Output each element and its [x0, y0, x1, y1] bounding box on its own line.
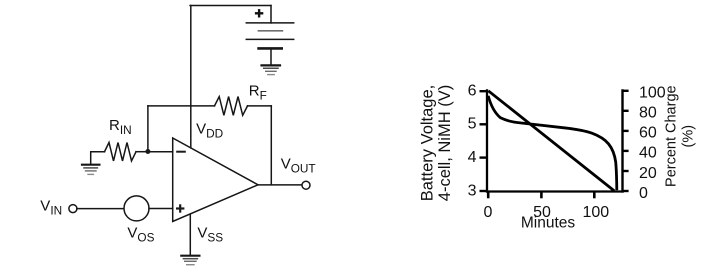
svg-text:60: 60	[639, 125, 657, 142]
axis: right y-axis (percent charge)	[621, 89, 623, 192]
op-amp U1	[173, 138, 258, 222]
source VOS (offset voltage, circle)	[124, 196, 149, 221]
svg-text:100: 100	[582, 204, 609, 221]
terminal VOUT (open circle)	[302, 181, 310, 189]
node: inverting input junction dot	[145, 149, 150, 154]
wire: top rail over to battery positive	[190, 5, 271, 7]
ground (RIN input)	[82, 165, 99, 175]
svg-text:Percent Charge: Percent Charge	[663, 85, 679, 187]
battery B1	[246, 23, 293, 49]
wire: drop from rail to battery top plate	[270, 6, 272, 23]
op-amp inverting input minus sign	[176, 151, 186, 153]
svg-text:4: 4	[468, 149, 477, 166]
wire: VOS source to op-amp plus input	[149, 208, 173, 210]
svg-text:0: 0	[484, 204, 493, 221]
ground (VSS)	[181, 256, 199, 265]
terminal VIN (open circle)	[69, 205, 77, 213]
wire: RF left lead	[148, 105, 215, 107]
battery polarity plus sign	[255, 9, 263, 17]
resistor RIN	[105, 143, 137, 161]
ticks: x-axis 0,50,100	[488, 192, 594, 199]
ground (battery)	[262, 65, 281, 74]
right y-axis title (two rotated lines)	[663, 85, 696, 187]
left y-axis title (two rotated lines)	[419, 85, 455, 202]
resistor RF	[215, 97, 248, 116]
svg-text:4-cell, NiMH (V): 4-cell, NiMH (V)	[436, 85, 454, 201]
curve: battery voltage discharge	[488, 96, 617, 190]
wire: inverting node to op-amp minus input	[148, 151, 173, 153]
wire: RIN right lead to inverting node	[136, 151, 148, 153]
op-amp non-inverting input plus sign	[176, 204, 184, 212]
svg-text:100: 100	[639, 85, 666, 102]
svg-text:Minutes: Minutes	[521, 215, 576, 232]
axis: bottom x-axis (minutes)	[486, 190, 624, 192]
curve: percent charge (straight diagonal)	[488, 91, 614, 191]
wire: VSS pin down to ground	[189, 214, 191, 255]
ticks: right y-axis 100..0	[623, 91, 629, 191]
wire: op-amp output to VOUT terminal	[258, 184, 302, 186]
wire: battery negative to ground	[270, 48, 272, 65]
wire: VIN terminal to VOS source	[77, 208, 124, 210]
ticks: left y-axis 6,5,4,3	[480, 91, 488, 191]
svg-text:5: 5	[468, 116, 477, 133]
wire: ground up and over to RIN left lead	[91, 152, 105, 164]
svg-text:40: 40	[639, 145, 657, 162]
svg-text:80: 80	[639, 105, 657, 122]
svg-text:3: 3	[468, 182, 477, 199]
wire: RF right lead to corner	[248, 105, 272, 107]
svg-text:6: 6	[468, 83, 477, 100]
svg-text:20: 20	[639, 165, 657, 182]
svg-text:(%): (%)	[681, 125, 697, 148]
svg-text:0: 0	[639, 185, 648, 202]
wire: VDD pin riser up to positive rail	[190, 6, 192, 148]
svg-text:Battery Voltage,: Battery Voltage,	[419, 85, 437, 202]
axis: left y-axis (battery voltage)	[486, 89, 488, 192]
wire: feedback riser from inverting node up to RF	[147, 106, 149, 151]
wire: feedback drop to output node	[270, 106, 272, 185]
